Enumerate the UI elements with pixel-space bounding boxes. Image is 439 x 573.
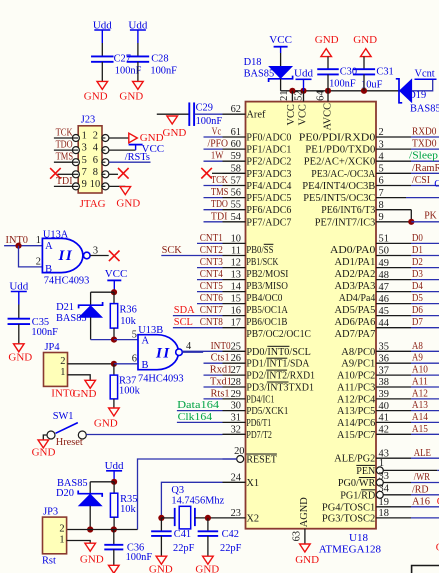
svg-text:5: 5 (82, 155, 87, 166)
op-amp U13B 74HC4093 NAND gate (138, 335, 179, 370)
svg-text:2: 2 (379, 127, 384, 138)
J23 pin 5 (72, 159, 79, 166)
svg-text:39: 39 (379, 389, 389, 400)
power port VCC (top) (274, 46, 288, 48)
svg-text:GND: GND (315, 34, 339, 46)
svg-text:C41: C41 (174, 529, 191, 540)
svg-text:29: 29 (231, 389, 241, 400)
capacitor C42 22pF (198, 530, 219, 532)
svg-text:D18: D18 (244, 57, 262, 68)
svg-text:PF4/ADC4: PF4/ADC4 (246, 181, 292, 192)
J23 pin 1 (72, 135, 79, 142)
ground C42 (203, 556, 214, 564)
U18 pin 61 PF0/ADC0 (223, 136, 246, 138)
ground C41 (156, 556, 167, 564)
svg-text:JP3: JP3 (43, 506, 58, 517)
power port VCC (J23) (129, 144, 143, 146)
svg-text:21: 21 (279, 90, 290, 100)
svg-text:Udd: Udd (105, 460, 124, 472)
svg-text:18: 18 (379, 508, 389, 519)
svg-text:PE7/INT7/IC3: PE7/INT7/IC3 (315, 217, 376, 228)
svg-text:Rst: Rst (42, 555, 56, 566)
U18 pin 15 PB5 (223, 303, 246, 305)
wire C28 bottom (137, 62, 139, 82)
ground J23 pin2 (129, 133, 138, 143)
no-connect X at J23 pin7 (50, 168, 61, 179)
svg-text:5: 5 (379, 164, 384, 175)
svg-text:1W: 1W (211, 151, 224, 162)
junction rail/pin21 (289, 88, 295, 94)
wire VCC to D18 (280, 53, 282, 66)
capacitor C28 (127, 55, 149, 57)
svg-text:Rts1: Rts1 (211, 388, 230, 399)
svg-text:/RamRs: /RamRs (412, 163, 439, 174)
svg-text:A9: A9 (412, 353, 423, 364)
svg-text:61: 61 (231, 127, 241, 138)
svg-text:14.7456Mhz: 14.7456Mhz (171, 495, 224, 506)
wire net TCK (204, 185, 223, 187)
svg-text:22pF: 22pF (173, 543, 195, 554)
svg-text:8: 8 (93, 167, 98, 178)
wire net Clk164 (177, 421, 223, 423)
J23 pin 10 (102, 183, 109, 190)
svg-text:PF3/ADC3: PF3/ADC3 (246, 169, 291, 180)
svg-text:1: 1 (59, 535, 64, 546)
svg-text:VCC: VCC (105, 268, 128, 280)
svg-text:VCC: VCC (286, 104, 297, 125)
partial component at bottom-right edge (412, 566, 439, 573)
svg-text:TMS: TMS (211, 187, 229, 198)
svg-text:C28: C28 (151, 54, 168, 65)
svg-text:1: 1 (36, 235, 41, 246)
svg-text:D5: D5 (412, 293, 423, 304)
U18 pin 14 PB4 (223, 291, 246, 293)
svg-text:X2: X2 (246, 513, 259, 524)
IC U18 ATMEGA128 body (246, 102, 377, 529)
wire C36 top (113, 530, 115, 545)
svg-text:II: II (155, 345, 171, 361)
wire RESET net (138, 459, 237, 530)
svg-text:AD4/Pa4: AD4/Pa4 (339, 293, 376, 304)
wire net 1W (204, 160, 223, 162)
svg-text:PG0/WR: PG0/WR (338, 478, 375, 489)
ground C30 (up) (321, 49, 332, 57)
svg-text:PE3/AC-/OC3A: PE3/AC-/OC3A (311, 169, 375, 180)
svg-text:INT0: INT0 (211, 341, 231, 352)
wire J23 pin10 to GND (109, 185, 125, 187)
wire TMS to J23 pin5 (54, 161, 73, 163)
svg-text:VCC: VCC (269, 34, 292, 46)
wire net CNT3 (197, 267, 223, 269)
wire Aref net left (157, 113, 190, 115)
svg-text:32: 32 (231, 424, 241, 435)
junction PK net (408, 219, 414, 225)
wire net /PFO (204, 148, 223, 150)
svg-text:AD6/PA6: AD6/PA6 (335, 317, 376, 328)
wire C36 bottom (113, 549, 115, 565)
svg-text:1: 1 (379, 458, 384, 469)
U18 pin 16 PB6 (223, 315, 246, 317)
svg-text:PF5/ADC5: PF5/ADC5 (246, 193, 291, 204)
svg-text:56: 56 (231, 188, 241, 199)
svg-text:42: 42 (379, 425, 389, 436)
svg-text:CNT8: CNT8 (200, 317, 223, 328)
connector JP4 (44, 353, 68, 387)
svg-text:36: 36 (379, 353, 389, 364)
svg-text:PF0/ADC0: PF0/ADC0 (246, 133, 291, 144)
wire D21 to node (91, 339, 114, 341)
wire D18 to rail (280, 79, 282, 91)
svg-text:D19: D19 (408, 90, 426, 101)
svg-text:54: 54 (231, 212, 242, 223)
power port Udd (rail) (296, 78, 312, 80)
svg-text:RXD0: RXD0 (412, 127, 437, 138)
svg-text:TDI: TDI (56, 176, 73, 187)
svg-text:3: 3 (93, 245, 98, 256)
wire net Vc (204, 136, 223, 138)
wire net Txd1 (204, 386, 223, 388)
svg-text:A8: A8 (412, 341, 423, 352)
wire C35 bottom (18, 324, 20, 344)
svg-text:62: 62 (231, 104, 241, 115)
ground C29 (167, 116, 178, 124)
wire net CNT5 (197, 291, 223, 293)
svg-text:TDI: TDI (211, 211, 228, 222)
power port Udd (C35) (11, 291, 27, 293)
U18 pin 29 PD4 (223, 398, 246, 400)
svg-text:PD5/XCK1: PD5/XCK1 (246, 406, 288, 417)
svg-text:CNT1: CNT1 (200, 233, 223, 244)
wire C30 bottom (327, 74, 329, 90)
svg-text:Hreset: Hreset (56, 437, 83, 448)
svg-text:B: B (142, 360, 149, 371)
svg-text:45: 45 (379, 306, 389, 317)
wire C31 top (363, 57, 365, 70)
junction D20/JP3 net (87, 526, 93, 532)
U18 pin 13 PB3 (223, 279, 246, 281)
svg-text:2: 2 (59, 523, 64, 534)
wire to D20 (90, 481, 114, 483)
svg-text:63: 63 (292, 531, 303, 541)
svg-text:C42: C42 (222, 529, 239, 540)
wire TDO to J23 pin3 (54, 149, 73, 151)
svg-text:9: 9 (82, 179, 87, 190)
U18 pin 32 PD7 (223, 433, 246, 435)
svg-text:/PFO: /PFO (208, 139, 229, 150)
wire INT0 tie to input B (19, 246, 43, 267)
svg-text:Txd1: Txd1 (210, 377, 232, 388)
power port VCC (R36) (107, 279, 121, 281)
junction R35/C36 (111, 526, 117, 532)
svg-text:TCK: TCK (211, 175, 228, 186)
svg-text:U18: U18 (349, 532, 368, 544)
wire net CNT2 (161, 255, 222, 257)
svg-text:TDO: TDO (56, 140, 73, 151)
svg-text:1: 1 (82, 131, 87, 142)
svg-text:D0: D0 (412, 233, 423, 244)
connector JP3 (43, 517, 67, 554)
svg-text:AVCC: AVCC (322, 103, 333, 131)
svg-text:A15: A15 (412, 424, 428, 435)
svg-text:74HC4093: 74HC4093 (138, 374, 184, 385)
svg-text:11: 11 (231, 246, 241, 257)
junction Udd/R35/D20 (111, 479, 117, 485)
wire node to U13B input A (114, 339, 138, 341)
svg-text:C: C (434, 179, 439, 190)
svg-text:10k: 10k (120, 316, 136, 327)
U18 pin 63 AGND (304, 529, 306, 544)
svg-text:10k: 10k (120, 504, 136, 515)
svg-text:AD2/PA2: AD2/PA2 (335, 269, 376, 280)
svg-text:PK: PK (424, 211, 437, 222)
svg-text:GND: GND (32, 446, 56, 458)
svg-text:59: 59 (231, 151, 241, 162)
U18 pin 52 VCC (303, 91, 305, 102)
svg-text:13: 13 (231, 270, 241, 281)
svg-text:14: 14 (231, 282, 242, 293)
svg-text:38: 38 (379, 377, 389, 388)
svg-text:JP4: JP4 (45, 342, 61, 353)
svg-text:100nF: 100nF (31, 327, 58, 338)
capacitor C41 22pF (151, 530, 172, 532)
capacitor C29 (188, 102, 190, 126)
svg-text:2: 2 (93, 131, 98, 142)
svg-text:Clk164: Clk164 (178, 412, 213, 423)
svg-text:PB6/OC1B: PB6/OC1B (246, 317, 287, 328)
wire crystal left (161, 517, 174, 519)
wire net CNT8 (173, 327, 223, 329)
junction rail/pin52/Udd (300, 88, 306, 94)
svg-text:GND: GND (80, 553, 104, 565)
U18 pin 25 PD0 (223, 350, 246, 352)
wire INT0 to U13A input A (4, 245, 42, 247)
wire C42 top (207, 518, 209, 531)
wire TDI to J23 pin9 (54, 185, 73, 187)
svg-text:PB3/MISO: PB3/MISO (246, 281, 288, 292)
wire Hreset to pin 32 (86, 434, 222, 436)
U18 pin 12 PB2 (223, 267, 246, 269)
svg-text:20: 20 (234, 446, 244, 457)
svg-text:AD3/PA3: AD3/PA3 (335, 281, 376, 292)
U18 pin 21 VCC (291, 91, 293, 102)
svg-text:44: 44 (379, 318, 390, 329)
J23 pin 3 (72, 147, 79, 154)
power port Udd (R35) (106, 470, 122, 472)
svg-text:/RD: /RD (412, 485, 429, 496)
svg-text:A14: A14 (412, 412, 429, 423)
wire net CNT6 (197, 303, 223, 305)
svg-text:CNT5: CNT5 (200, 281, 223, 292)
no-connect X at pin 58 (201, 168, 212, 179)
U18 pin 26 PD1 (223, 362, 246, 364)
junction INT0 tie (15, 243, 21, 249)
wire to D21 (91, 291, 114, 293)
U18 pin 64 AVCC (327, 91, 329, 102)
wire net Rts1 (204, 398, 223, 400)
svg-text:PB2/MOSI: PB2/MOSI (246, 269, 288, 280)
svg-text:PD7/T2: PD7/T2 (246, 430, 272, 441)
wire top power rail (281, 90, 399, 92)
capacitor C31 (353, 68, 375, 70)
svg-text:BAS85: BAS85 (244, 69, 275, 80)
U18 pin 54 PF7/ADC7 (223, 221, 246, 223)
svg-text:PB0/SS: PB0/SS (246, 245, 273, 256)
junction rail/pin64/C30 (325, 88, 331, 94)
svg-text:PE4/INT4/OC3B: PE4/INT4/OC3B (302, 181, 375, 192)
wire node to U13B input B (114, 363, 138, 365)
wire net TDI (204, 221, 223, 223)
wire C28 top (137, 43, 139, 56)
svg-text:40: 40 (379, 401, 389, 412)
resistor R36 10k (113, 292, 115, 303)
svg-text:Udd: Udd (93, 19, 112, 31)
U18 pin 56 PF5/ADC5 (223, 197, 246, 199)
svg-text:Vcnt: Vcnt (415, 68, 435, 79)
svg-text:100k: 100k (119, 386, 141, 397)
svg-text:41: 41 (379, 413, 389, 424)
wire pin 58 stub (212, 172, 223, 174)
wire /RSTs from J23 pin6 (109, 161, 151, 163)
svg-text:PD6/T1: PD6/T1 (246, 418, 271, 429)
svg-text:6: 6 (379, 176, 384, 187)
svg-text:CNT6: CNT6 (200, 293, 223, 304)
ground SW1 (38, 440, 49, 448)
svg-text:D7: D7 (412, 317, 423, 328)
svg-text:7: 7 (379, 188, 384, 199)
wire crystal right to X2 (195, 517, 223, 519)
diode D18 BAS85 (269, 76, 293, 82)
svg-text:BAS85: BAS85 (56, 313, 87, 324)
J23 pin 7 (72, 171, 79, 178)
svg-text:AGND: AGND (299, 497, 310, 528)
svg-text:A11: A11 (412, 377, 428, 388)
svg-text:9: 9 (379, 212, 384, 223)
wire D19 to Vcnt (412, 79, 433, 91)
J23 pin 6 (102, 159, 109, 166)
svg-text:30: 30 (231, 401, 241, 412)
svg-text:100nF: 100nF (329, 78, 356, 89)
ground C31 (up) (361, 49, 372, 57)
svg-text:PD3/INT3TXD1: PD3/INT3TXD1 (246, 383, 314, 394)
svg-text:ALE: ALE (414, 448, 431, 459)
svg-text:15: 15 (231, 294, 241, 305)
svg-text:/WR: /WR (414, 472, 430, 483)
svg-text:PE1/PD0/TXD0: PE1/PD0/TXD0 (305, 145, 375, 156)
svg-text:PEN: PEN (356, 466, 375, 477)
svg-text:60: 60 (231, 139, 241, 150)
svg-text:10: 10 (90, 179, 100, 190)
svg-text:GND: GND (149, 563, 173, 573)
ground C27 (97, 81, 108, 89)
svg-text:Q3: Q3 (171, 485, 184, 496)
svg-text:100nF: 100nF (150, 66, 177, 77)
svg-text:TDO: TDO (211, 199, 228, 210)
svg-text:6: 6 (93, 155, 98, 166)
svg-text:II: II (58, 248, 74, 264)
svg-text:AD7/PA7: AD7/PA7 (335, 329, 376, 340)
junction rail/C31 (361, 88, 367, 94)
U18 pin 28 PD3 (223, 386, 246, 388)
svg-text:RESET: RESET (246, 455, 277, 466)
svg-text:PE2/AC+/XCK0: PE2/AC+/XCK0 (304, 157, 376, 168)
svg-text:A10: A10 (412, 365, 428, 376)
svg-text:A11/PC3: A11/PC3 (337, 383, 375, 394)
wire R37 to ground (113, 399, 115, 408)
svg-text:CNT3: CNT3 (200, 257, 223, 268)
svg-text:B: B (45, 264, 52, 275)
junction R36/R37/U13B-A (111, 337, 117, 343)
svg-text:57: 57 (231, 176, 241, 187)
svg-text:3: 3 (379, 139, 384, 150)
capacitor C36 (104, 544, 123, 546)
svg-text:50: 50 (379, 246, 389, 257)
svg-text:4: 4 (186, 341, 192, 352)
junction VCC/R36/D21 (111, 289, 117, 295)
wire net PK (411, 221, 439, 223)
svg-text:D21: D21 (56, 302, 74, 313)
wire net Rxd1 (204, 374, 223, 376)
wire U13A output (90, 255, 109, 257)
svg-text:Udd: Udd (9, 281, 28, 293)
power port Udd (C28) (130, 29, 146, 31)
U18 pin 10 PB0 (223, 242, 246, 244)
svg-text:Aref: Aref (246, 110, 266, 121)
svg-text:R36: R36 (120, 304, 137, 315)
svg-text:GND: GND (84, 91, 108, 103)
svg-text:3: 3 (82, 143, 87, 154)
svg-text:58: 58 (231, 163, 241, 174)
power port Vcnt (415, 78, 437, 80)
svg-text:24: 24 (231, 472, 242, 483)
U18 pin 55 PF6/ADC6 (223, 209, 246, 211)
svg-text:2: 2 (36, 257, 41, 268)
svg-text:PG4/TOSC1: PG4/TOSC1 (322, 502, 375, 513)
wire net CNT7 (173, 315, 223, 317)
svg-text:5: 5 (132, 329, 137, 340)
svg-text:GND: GND (163, 127, 187, 139)
svg-text:CNT7: CNT7 (200, 305, 223, 316)
J23 pin 4 (102, 147, 109, 154)
svg-text:AD1/PA1: AD1/PA1 (335, 257, 376, 268)
svg-text:A13/PC5: A13/PC5 (337, 406, 375, 417)
U18 pin 17 PB7 (223, 327, 246, 329)
svg-text:74HC4093: 74HC4093 (44, 275, 90, 286)
svg-text:PE5/INT5/OC3C: PE5/INT5/OC3C (303, 193, 375, 204)
capacitor C30 (317, 68, 339, 70)
svg-text:U13A: U13A (43, 229, 69, 240)
svg-text:D2: D2 (412, 257, 423, 268)
capacitor C35 (8, 318, 31, 320)
svg-text:BAS85: BAS85 (410, 103, 439, 114)
wire C30 top (327, 57, 329, 70)
svg-text:GND: GND (94, 417, 118, 429)
svg-text:A: A (142, 335, 150, 346)
svg-text:AD0/PA0: AD0/PA0 (330, 245, 375, 256)
crystal Q3 14.7456Mhz (174, 508, 176, 526)
resistor R37 100k (113, 364, 115, 375)
wire TCK to J23 pin1 (54, 137, 73, 139)
svg-text:D20: D20 (56, 488, 74, 499)
svg-text:CNT4: CNT4 (200, 269, 224, 280)
svg-text:28: 28 (231, 377, 241, 388)
svg-text:55: 55 (231, 200, 241, 211)
wire net INT0 (183, 350, 223, 352)
svg-text:GND: GND (295, 554, 319, 566)
wire net TDO (204, 209, 223, 211)
svg-text:A10/PC2: A10/PC2 (337, 371, 375, 382)
svg-text:CNT2: CNT2 (200, 245, 223, 256)
no-connect X at U13A output (109, 251, 120, 262)
